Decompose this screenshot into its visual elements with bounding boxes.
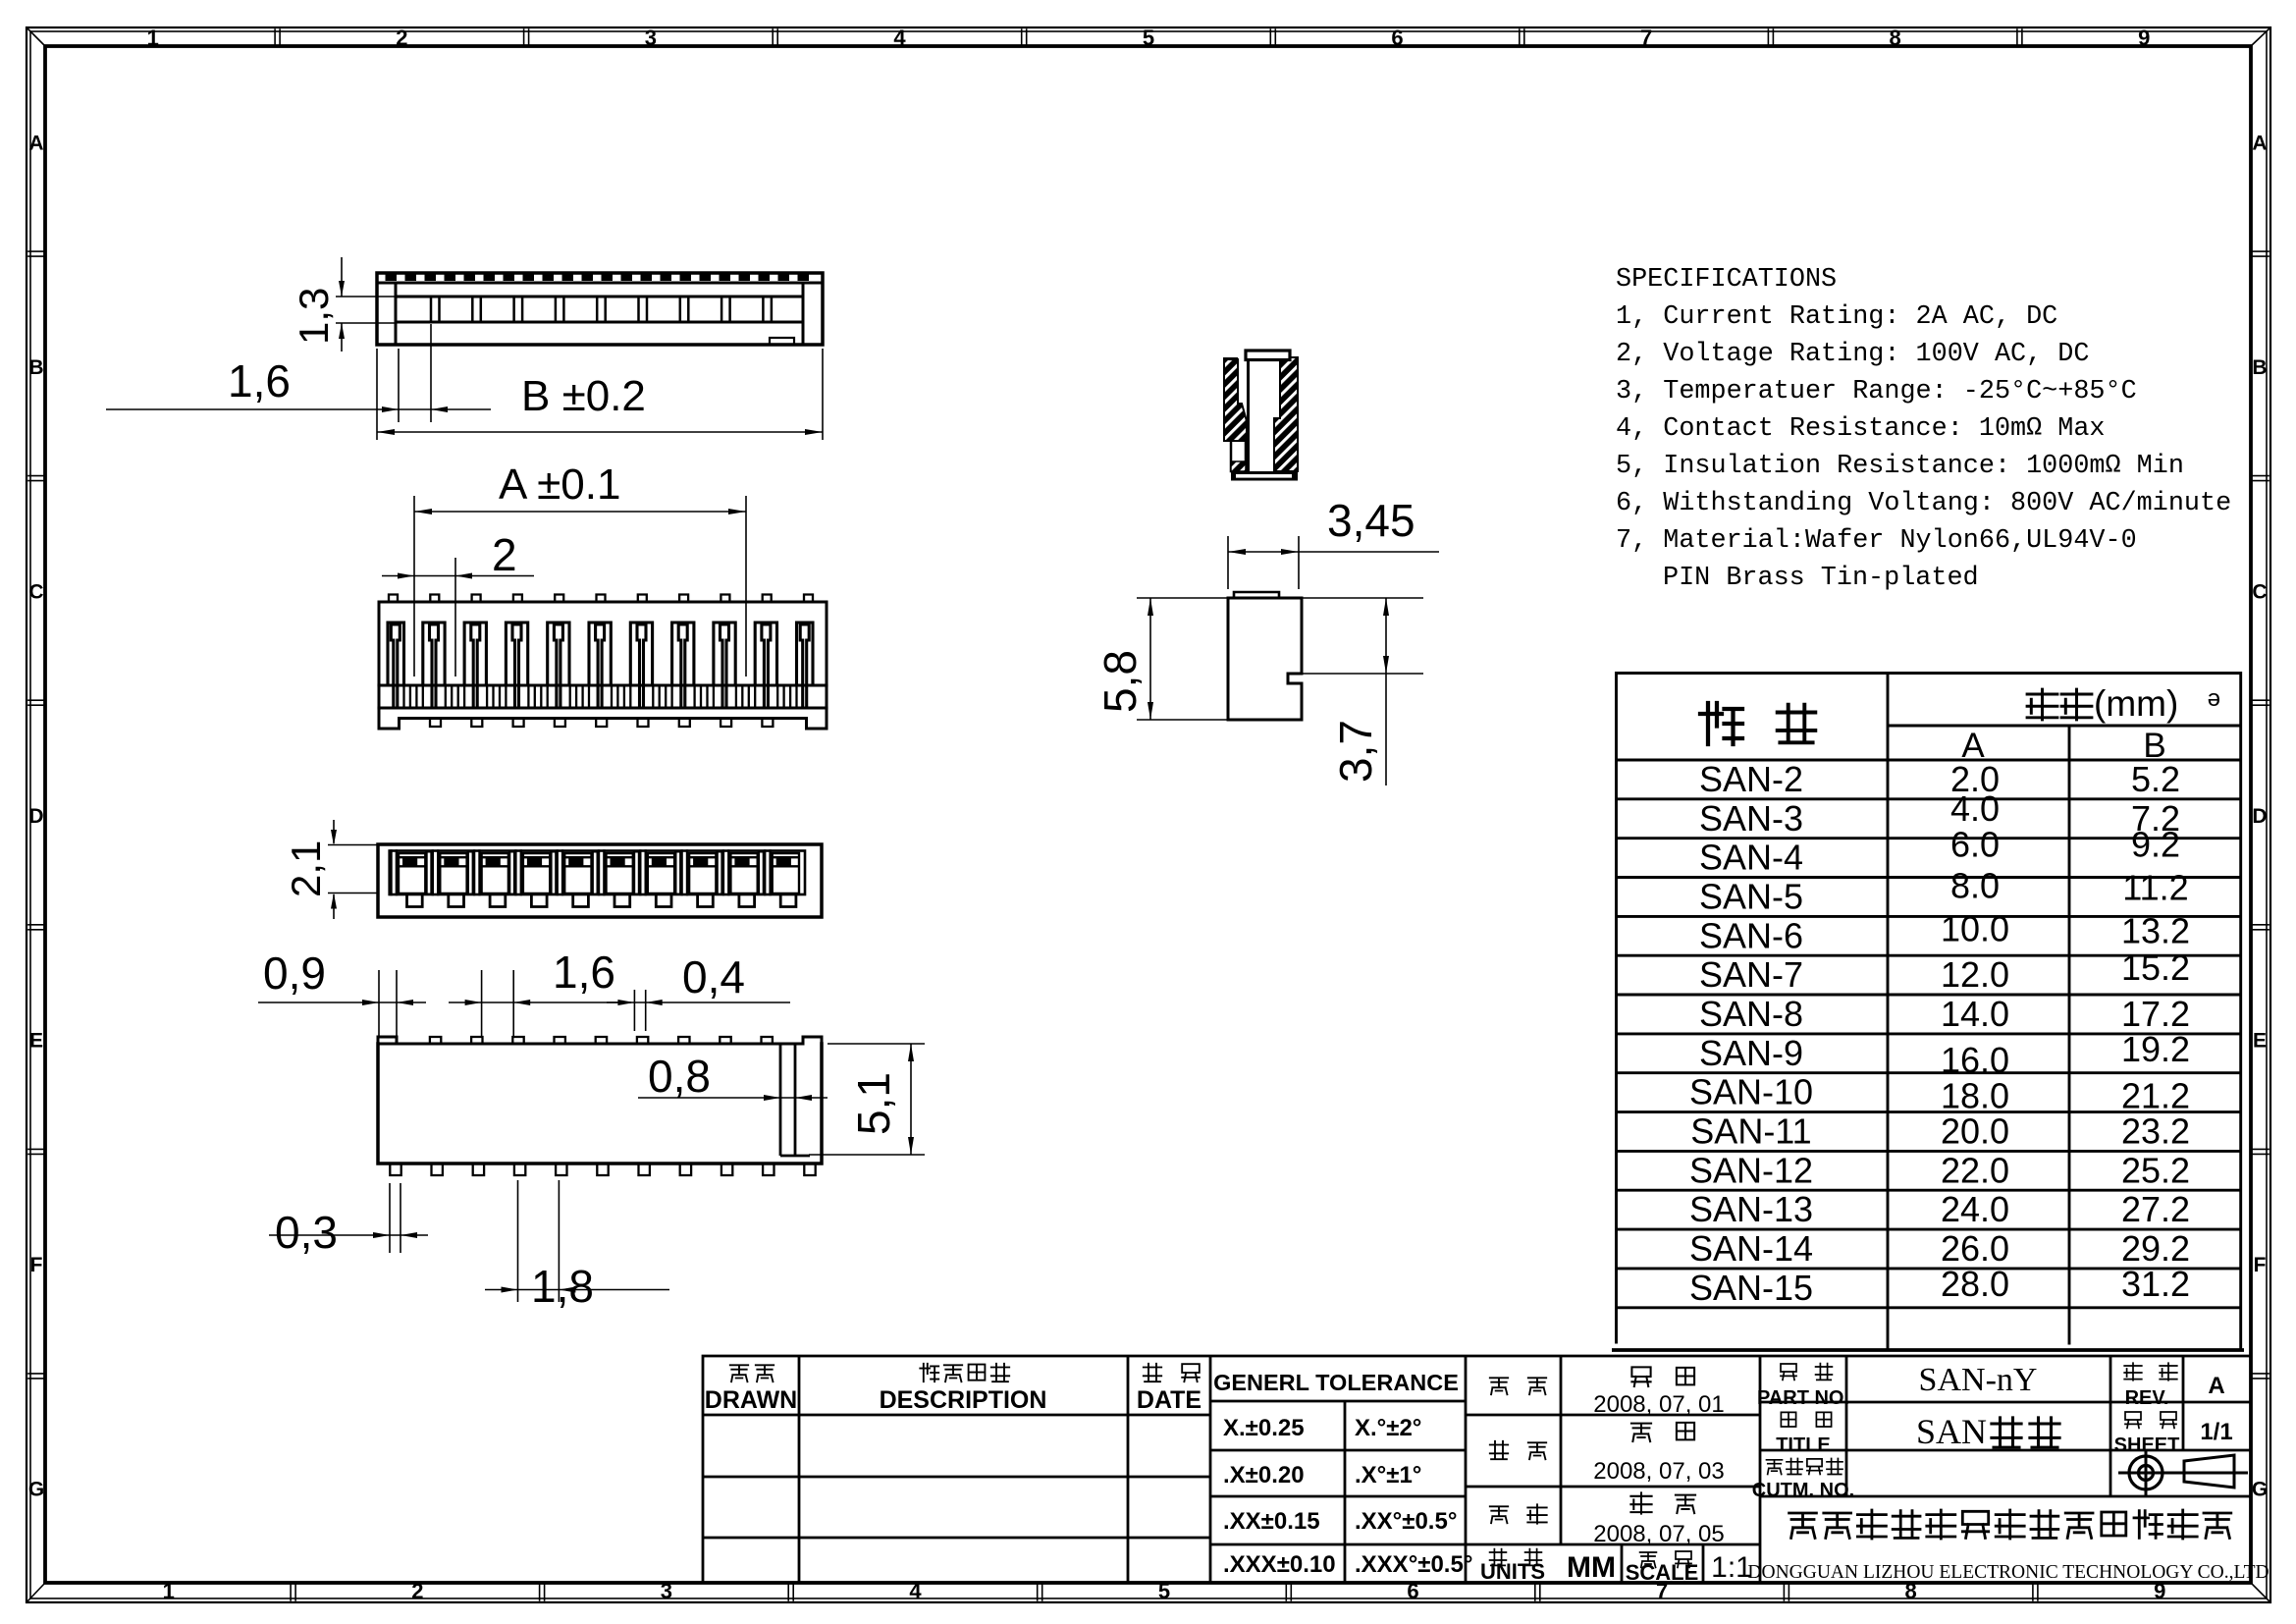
rear view contact cells xyxy=(392,851,800,895)
svg-text:.XXX±0.10: .XXX±0.10 xyxy=(1223,1551,1336,1578)
svg-text:SAN-13: SAN-13 xyxy=(1689,1189,1813,1229)
svg-text:0,9: 0,9 xyxy=(263,947,326,999)
title block drawn column header xyxy=(705,1365,797,1414)
svg-text:1: 1 xyxy=(147,26,159,50)
front view bottom pin bumps xyxy=(430,719,773,728)
parts table rows text xyxy=(1689,759,2190,1308)
svg-text:5,8: 5,8 xyxy=(1095,650,1146,713)
svg-text:SAN-6: SAN-6 xyxy=(1699,915,1803,955)
svg-text:.XX±0.15: .XX±0.15 xyxy=(1223,1508,1320,1535)
svg-text:0,3: 0,3 xyxy=(275,1207,338,1258)
company name english xyxy=(1747,1562,2269,1583)
svg-text:REV.: REV. xyxy=(2125,1387,2169,1409)
svg-text:G: G xyxy=(2252,1479,2268,1501)
top view slot dash strip xyxy=(377,275,823,284)
svg-text:DONGGUAN LIZHOU ELECTRONIC TEC: DONGGUAN LIZHOU ELECTRONIC TECHNOLOGY CO… xyxy=(1747,1562,2269,1583)
bottom view body outline xyxy=(378,1037,822,1164)
parts table header xyxy=(1700,683,2220,765)
svg-text:1,6: 1,6 xyxy=(228,355,291,406)
svg-text:SPECIFICATIONS: SPECIFICATIONS xyxy=(1616,265,1837,295)
top view inner contact box xyxy=(396,297,803,322)
svg-text:.XX°±0.5°: .XX°±0.5° xyxy=(1355,1508,1457,1535)
svg-text:28.0: 28.0 xyxy=(1941,1264,2009,1304)
svg-text:PART NO.: PART NO. xyxy=(1757,1387,1849,1409)
svg-text:8: 8 xyxy=(1890,26,1901,50)
title block grid xyxy=(703,1356,2251,1583)
rear view bottom tabs xyxy=(407,894,796,907)
svg-text:TITLE: TITLE xyxy=(1776,1435,1831,1456)
svg-text:D: D xyxy=(28,805,43,828)
tolerance values xyxy=(1223,1415,1472,1578)
svg-text:6: 6 xyxy=(1391,26,1403,50)
svg-text:SAN-nY: SAN-nY xyxy=(1919,1362,2038,1398)
svg-text:C: C xyxy=(2252,580,2267,603)
dimension 3.7 xyxy=(1302,598,1423,785)
svg-text:4, Contact Resistance: 10mΩ Ma: 4, Contact Resistance: 10mΩ Max xyxy=(1616,414,2106,444)
rear view body outline xyxy=(378,844,822,917)
dimension 1.6 horizontal xyxy=(106,324,491,440)
svg-text:1/1: 1/1 xyxy=(2200,1419,2232,1445)
svg-text:3: 3 xyxy=(661,1579,672,1603)
title block date header xyxy=(1137,1364,1201,1414)
profile view body outline xyxy=(1228,598,1302,720)
svg-text:1,3: 1,3 xyxy=(291,288,337,345)
dimension 0.4 tab xyxy=(607,951,790,1031)
svg-text:SAN-11: SAN-11 xyxy=(1690,1110,1811,1151)
svg-text:25.2: 25.2 xyxy=(2121,1150,2190,1190)
svg-text:A: A xyxy=(2208,1373,2224,1399)
svg-text:3,7: 3,7 xyxy=(1330,720,1381,783)
revision labels xyxy=(2114,1363,2180,1456)
svg-text:4.0: 4.0 xyxy=(1950,788,2000,829)
bottom view bottom tabs xyxy=(390,1164,815,1175)
svg-text:27.2: 27.2 xyxy=(2121,1189,2190,1229)
svg-text:F: F xyxy=(30,1254,43,1276)
svg-text:6, Withstanding Voltang: 800V: 6, Withstanding Voltang: 800V AC/minute xyxy=(1616,489,2231,518)
svg-text:A ±0.1: A ±0.1 xyxy=(499,460,620,509)
svg-text:SAN-10: SAN-10 xyxy=(1689,1072,1813,1112)
section view left hatched wall xyxy=(1224,357,1247,441)
svg-text:23.2: 23.2 xyxy=(2121,1110,2190,1151)
svg-text:SAN-12: SAN-12 xyxy=(1689,1150,1813,1190)
svg-text:2008, 07, 03: 2008, 07, 03 xyxy=(1593,1458,1724,1485)
svg-text:SAN-2: SAN-2 xyxy=(1699,759,1803,799)
svg-text:7: 7 xyxy=(1640,26,1652,50)
svg-text:2: 2 xyxy=(396,26,407,50)
svg-text:13.2: 13.2 xyxy=(2121,910,2190,950)
svg-text:15.2: 15.2 xyxy=(2121,947,2190,988)
specifications text block xyxy=(1616,265,2231,593)
svg-text:SAN-8: SAN-8 xyxy=(1699,994,1803,1034)
svg-text:4: 4 xyxy=(909,1579,922,1603)
svg-text:SAN: SAN xyxy=(1916,1412,1987,1451)
svg-text:7, Material:Wafer Nylon66,UL94: 7, Material:Wafer Nylon66,UL94V-0 xyxy=(1616,526,2137,556)
title value SAN series xyxy=(1916,1412,2059,1451)
svg-text:SAN-9: SAN-9 xyxy=(1699,1033,1803,1073)
parts table grid xyxy=(1612,674,2244,1351)
svg-text:(mm): (mm) xyxy=(2094,683,2178,724)
svg-text:.XXX°±0.5°: .XXX°±0.5° xyxy=(1355,1551,1472,1578)
svg-text:2: 2 xyxy=(411,1579,423,1603)
dimension 0.8 plate xyxy=(638,1051,828,1102)
company name chinese xyxy=(1789,1510,2231,1539)
svg-text:B: B xyxy=(2252,356,2267,379)
front view body outline xyxy=(379,602,827,729)
svg-text:e: e xyxy=(2208,687,2220,714)
svg-text:DRAWN: DRAWN xyxy=(705,1386,797,1414)
svg-text:6: 6 xyxy=(1407,1579,1418,1603)
dimension A±0.1 xyxy=(414,460,746,677)
svg-text:5: 5 xyxy=(1143,26,1154,50)
svg-text:SAN-3: SAN-3 xyxy=(1699,798,1803,839)
svg-text:DATE: DATE xyxy=(1137,1386,1201,1414)
rear view inner cavity box xyxy=(390,851,805,895)
units scale row xyxy=(1567,1551,1752,1585)
dimension B±0.2 xyxy=(377,349,823,440)
svg-text:1:1: 1:1 xyxy=(1711,1551,1752,1584)
svg-text:1, Current Rating: 2A AC, DC: 1, Current Rating: 2A AC, DC xyxy=(1616,302,2057,332)
dimension 0.9 xyxy=(258,947,426,1037)
svg-text:22.0: 22.0 xyxy=(1941,1150,2009,1190)
front view fringe lines xyxy=(404,685,797,708)
svg-text:17.2: 17.2 xyxy=(2121,994,2190,1034)
title block description header xyxy=(880,1364,1047,1414)
svg-text:16.0: 16.0 xyxy=(1941,1040,2009,1080)
svg-text:14.0: 14.0 xyxy=(1941,994,2009,1034)
svg-text:SCALE: SCALE xyxy=(1626,1560,1699,1585)
svg-text:B: B xyxy=(28,356,43,379)
svg-text:10.0: 10.0 xyxy=(1941,908,2009,948)
dimension 5.8 xyxy=(1095,598,1228,720)
svg-text:4: 4 xyxy=(893,26,906,50)
svg-text:2008, 07, 01: 2008, 07, 01 xyxy=(1593,1391,1724,1418)
svg-text:SAN-5: SAN-5 xyxy=(1699,876,1803,916)
svg-text:5: 5 xyxy=(1158,1579,1170,1603)
svg-text:X.±0.25: X.±0.25 xyxy=(1223,1415,1305,1441)
svg-text:20.0: 20.0 xyxy=(1941,1110,2009,1151)
svg-text:SAN-15: SAN-15 xyxy=(1689,1268,1813,1308)
svg-text:3, Temperatuer Range: -25°C~+8: 3, Temperatuer Range: -25°C~+85°C xyxy=(1616,377,2137,406)
svg-text:PIN Brass Tin-plated: PIN Brass Tin-plated xyxy=(1663,564,1979,593)
dimension 5.1 height xyxy=(809,1044,925,1155)
svg-text:A: A xyxy=(28,132,43,154)
section view bottom bar xyxy=(1231,471,1298,481)
svg-text:UNITS: UNITS xyxy=(1480,1559,1545,1584)
svg-text:5,1: 5,1 xyxy=(848,1072,899,1135)
svg-text:X.°±2°: X.°±2° xyxy=(1355,1415,1421,1441)
svg-text:2: 2 xyxy=(492,529,517,580)
svg-text:3,45: 3,45 xyxy=(1327,495,1415,546)
svg-text:11.2: 11.2 xyxy=(2122,867,2188,907)
top view polarity notch xyxy=(770,338,794,345)
svg-text:2, Voltage Rating: 100V AC, DC: 2, Voltage Rating: 100V AC, DC xyxy=(1616,340,2089,369)
svg-text:E: E xyxy=(2253,1030,2267,1053)
section view lower left wall xyxy=(1231,441,1246,471)
part number labels xyxy=(1752,1364,1854,1501)
section view right hatched wall xyxy=(1274,357,1298,471)
svg-text:DESCRIPTION: DESCRIPTION xyxy=(880,1386,1047,1414)
svg-text:F: F xyxy=(2254,1254,2267,1276)
svg-text:SAN-4: SAN-4 xyxy=(1699,838,1803,878)
svg-text:G: G xyxy=(28,1479,44,1501)
svg-text:19.2: 19.2 xyxy=(2121,1029,2190,1069)
svg-text:A: A xyxy=(2252,132,2267,154)
svg-text:SAN-7: SAN-7 xyxy=(1699,954,1803,995)
projection angle symbol xyxy=(2118,1450,2248,1495)
svg-text:E: E xyxy=(29,1030,43,1053)
svg-text:9.2: 9.2 xyxy=(2131,825,2180,865)
part number value SAN-nY xyxy=(1919,1362,2038,1398)
dimension 2 pitch xyxy=(382,529,534,677)
dimension 1.3 vertical xyxy=(291,257,396,352)
top view body outline xyxy=(377,273,823,345)
dimension 1.8 pitch xyxy=(485,1180,669,1312)
svg-text:D: D xyxy=(2252,805,2267,828)
profile view top tab xyxy=(1234,592,1279,598)
svg-text:12.0: 12.0 xyxy=(1941,954,2009,995)
svg-text:2,1: 2,1 xyxy=(283,840,329,897)
section view center channel walls xyxy=(1247,359,1250,471)
approval names and dates xyxy=(1593,1367,1724,1547)
svg-text:SAN-14: SAN-14 xyxy=(1689,1228,1813,1269)
svg-text:3: 3 xyxy=(645,26,657,50)
svg-text:5.2: 5.2 xyxy=(2131,759,2180,799)
top view side walls xyxy=(396,283,803,345)
dimension 2.1 vertical xyxy=(283,820,378,919)
svg-text:MM: MM xyxy=(1567,1551,1616,1584)
svg-text:B ±0.2: B ±0.2 xyxy=(521,372,646,420)
dimension 0.3 tab xyxy=(269,1183,428,1258)
svg-text:5, Insulation Resistance: 1000: 5, Insulation Resistance: 1000mΩ Min xyxy=(1616,452,2184,481)
svg-text:9: 9 xyxy=(2138,26,2150,50)
dimension 1.6 gap xyxy=(449,947,631,1037)
svg-text:C: C xyxy=(28,580,43,603)
front view top pin bumps xyxy=(389,595,813,603)
svg-text:24.0: 24.0 xyxy=(1941,1189,2009,1229)
svg-text:31.2: 31.2 xyxy=(2121,1264,2190,1304)
svg-text:1,6: 1,6 xyxy=(553,947,615,998)
svg-text:1,8: 1,8 xyxy=(531,1261,594,1312)
general tolerance header xyxy=(1213,1370,1459,1395)
bottom view end plate lines xyxy=(780,1044,810,1156)
front view comb teeth and slots xyxy=(379,623,827,708)
svg-text:2008, 07, 05: 2008, 07, 05 xyxy=(1593,1521,1724,1547)
svg-text:0,8: 0,8 xyxy=(648,1051,711,1102)
svg-text:.X°±1°: .X°±1° xyxy=(1355,1462,1421,1489)
bottom view top tabs xyxy=(430,1037,773,1044)
svg-text:8.0: 8.0 xyxy=(1950,865,2000,905)
svg-text:.X±0.20: .X±0.20 xyxy=(1223,1462,1305,1489)
svg-text:6.0: 6.0 xyxy=(1950,825,2000,865)
svg-text:0,4: 0,4 xyxy=(682,951,745,1002)
dimension 3.45 xyxy=(1228,495,1439,589)
revision values xyxy=(2200,1373,2232,1445)
approval labels column xyxy=(1480,1378,1547,1584)
svg-text:1: 1 xyxy=(163,1579,175,1603)
svg-text:GENERL TOLERANCE: GENERL TOLERANCE xyxy=(1213,1370,1459,1395)
svg-text:CUTM. NO.: CUTM. NO. xyxy=(1752,1480,1854,1501)
section view terminal cap xyxy=(1246,351,1290,360)
